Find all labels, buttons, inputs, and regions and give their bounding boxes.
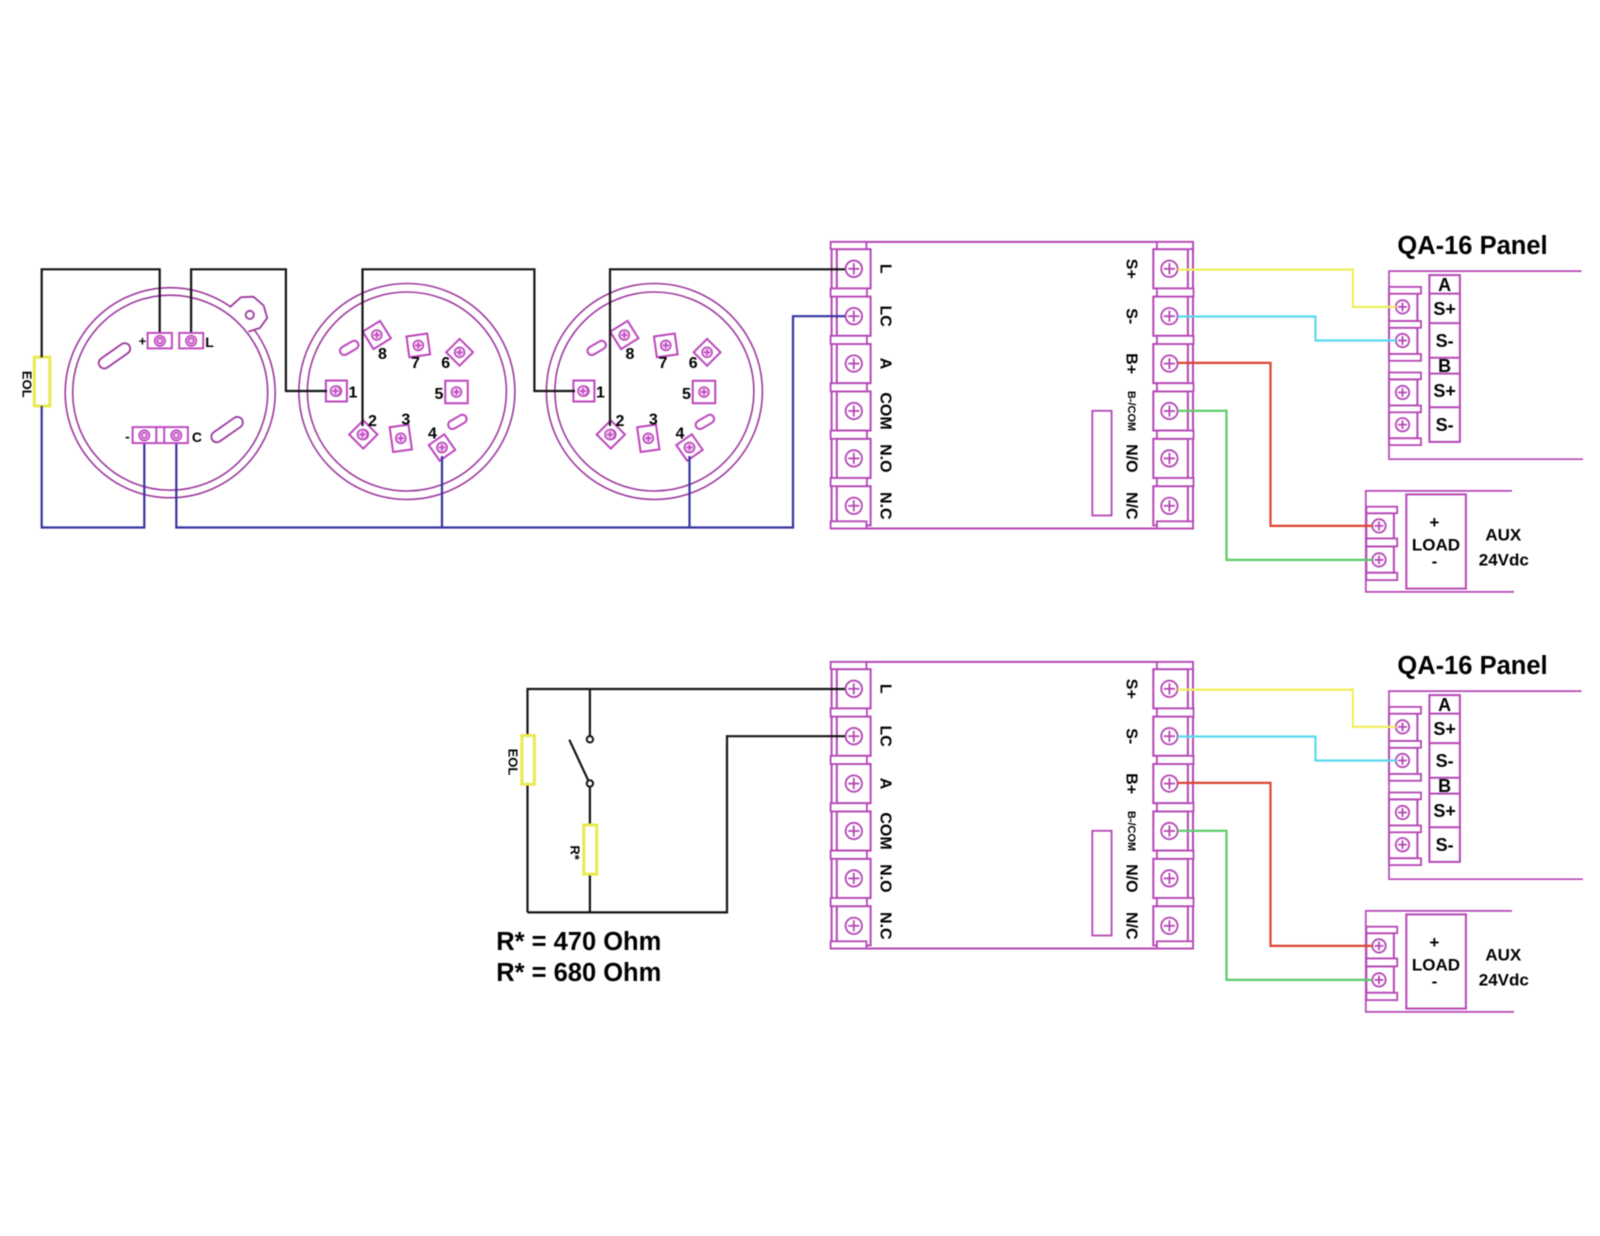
svg-text:5: 5 bbox=[682, 386, 691, 403]
svg-text:S-: S- bbox=[1123, 728, 1140, 744]
svg-text:R* = 470 Ohm: R* = 470 Ohm bbox=[496, 928, 661, 956]
svg-text:4: 4 bbox=[676, 425, 685, 442]
svg-text:24Vdc: 24Vdc bbox=[1479, 551, 1529, 570]
svg-text:L: L bbox=[876, 264, 893, 274]
svg-text:3: 3 bbox=[401, 411, 410, 428]
svg-text:N.O: N.O bbox=[876, 864, 893, 892]
svg-text:A: A bbox=[1438, 695, 1451, 715]
svg-text:S+: S+ bbox=[1123, 259, 1140, 279]
svg-text:24Vdc: 24Vdc bbox=[1479, 971, 1529, 990]
svg-text:S-: S- bbox=[1436, 415, 1454, 435]
svg-text:-: - bbox=[125, 428, 130, 444]
svg-text:L: L bbox=[205, 334, 214, 350]
svg-text:LC: LC bbox=[876, 726, 893, 748]
svg-text:N/O: N/O bbox=[1123, 864, 1140, 892]
svg-text:LC: LC bbox=[876, 306, 893, 328]
svg-text:6: 6 bbox=[689, 355, 698, 372]
svg-text:-: - bbox=[1432, 972, 1438, 991]
svg-text:A: A bbox=[1438, 275, 1451, 295]
svg-text:+: + bbox=[139, 334, 147, 349]
svg-text:N.O: N.O bbox=[876, 444, 893, 472]
svg-text:EOL: EOL bbox=[19, 371, 34, 398]
svg-text:N/C: N/C bbox=[1123, 492, 1140, 520]
svg-text:B: B bbox=[1438, 356, 1451, 376]
svg-text:2: 2 bbox=[368, 413, 377, 430]
svg-text:N/O: N/O bbox=[1123, 444, 1140, 472]
svg-text:COM: COM bbox=[876, 812, 893, 849]
svg-text:S+: S+ bbox=[1123, 679, 1140, 699]
svg-text:1: 1 bbox=[349, 384, 358, 401]
svg-text:+: + bbox=[1429, 513, 1439, 532]
svg-text:S-: S- bbox=[1436, 835, 1454, 855]
svg-text:7: 7 bbox=[658, 355, 667, 372]
svg-text:R* = 680 Ohm: R* = 680 Ohm bbox=[496, 959, 661, 987]
svg-text:AUX: AUX bbox=[1485, 946, 1522, 965]
svg-text:S+: S+ bbox=[1433, 381, 1456, 401]
svg-text:3: 3 bbox=[649, 411, 658, 428]
svg-text:AUX: AUX bbox=[1485, 526, 1522, 545]
svg-text:S+: S+ bbox=[1433, 719, 1456, 739]
svg-text:N/C: N/C bbox=[1123, 912, 1140, 940]
svg-text:4: 4 bbox=[428, 425, 437, 442]
svg-text:B: B bbox=[1438, 776, 1451, 796]
svg-text:COM: COM bbox=[876, 392, 893, 429]
svg-text:2: 2 bbox=[616, 413, 625, 430]
svg-text:5: 5 bbox=[435, 386, 444, 403]
svg-text:A: A bbox=[876, 358, 893, 370]
svg-text:QA-16 Panel: QA-16 Panel bbox=[1397, 652, 1547, 680]
svg-text:7: 7 bbox=[411, 355, 420, 372]
svg-text:8: 8 bbox=[625, 346, 634, 363]
svg-text:B+: B+ bbox=[1123, 773, 1140, 794]
svg-text:+: + bbox=[1429, 933, 1439, 952]
svg-text:S+: S+ bbox=[1433, 299, 1456, 319]
svg-text:S-: S- bbox=[1436, 331, 1454, 351]
svg-text:EOL: EOL bbox=[505, 749, 520, 776]
svg-text:-: - bbox=[1432, 552, 1438, 571]
svg-text:S-: S- bbox=[1123, 308, 1140, 324]
svg-text:B-/COM: B-/COM bbox=[1125, 391, 1137, 431]
svg-text:6: 6 bbox=[441, 355, 450, 372]
svg-text:A: A bbox=[876, 778, 893, 790]
svg-text:8: 8 bbox=[378, 346, 387, 363]
svg-text:S+: S+ bbox=[1433, 801, 1456, 821]
svg-text:B-/COM: B-/COM bbox=[1125, 811, 1137, 851]
svg-text:N.C: N.C bbox=[876, 492, 893, 520]
svg-text:L: L bbox=[876, 684, 893, 694]
svg-text:R*: R* bbox=[568, 845, 583, 860]
svg-text:S-: S- bbox=[1436, 751, 1454, 771]
svg-text:B+: B+ bbox=[1123, 353, 1140, 374]
svg-text:N.C: N.C bbox=[876, 912, 893, 940]
svg-text:1: 1 bbox=[596, 384, 605, 401]
svg-text:C: C bbox=[192, 429, 202, 445]
svg-text:QA-16 Panel: QA-16 Panel bbox=[1397, 232, 1547, 260]
